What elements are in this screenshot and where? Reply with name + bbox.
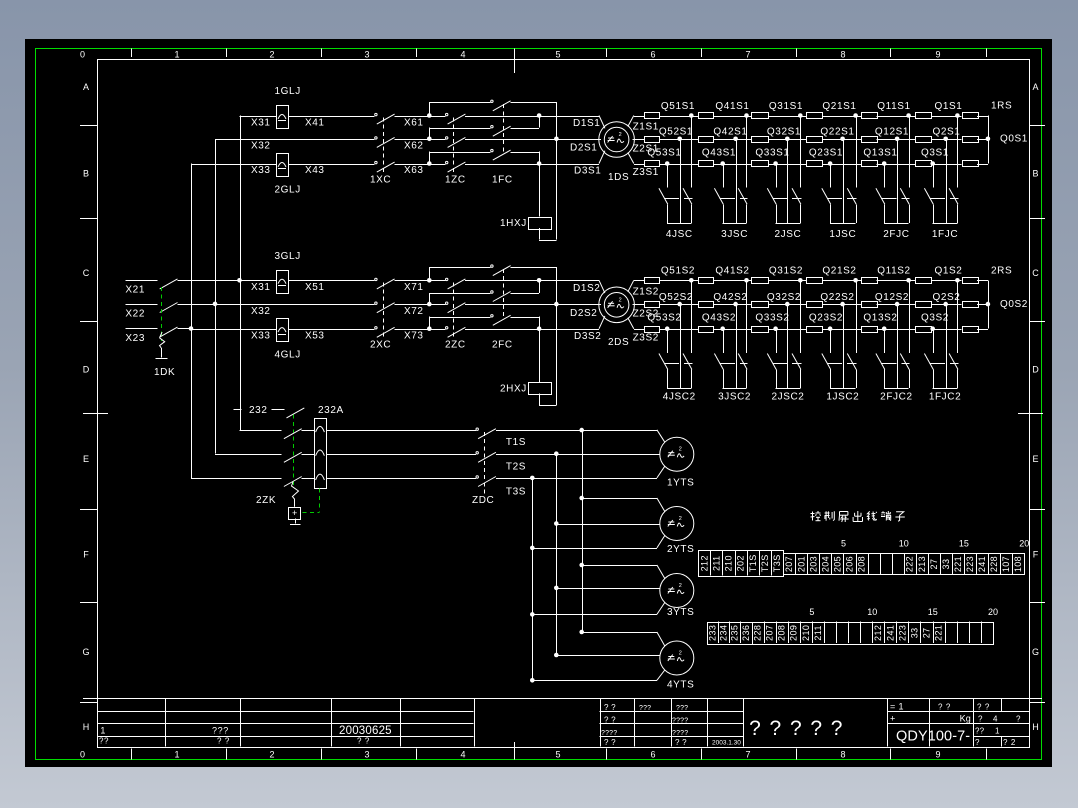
- wire T2S to ZDC: [326, 454, 476, 456]
- terminal strip1 main block: [784, 554, 1025, 575]
- svg-text:Q3S1: Q3S1: [921, 147, 949, 158]
- contact pair 2JSC: [773, 161, 778, 166]
- wire 2YTS top diagonal: [657, 498, 665, 512]
- green link horizontal: [303, 512, 320, 514]
- svg-text:Q33S1: Q33S1: [755, 147, 789, 158]
- svg-text:2DS: 2DS: [608, 337, 629, 348]
- resistor element col3 row1 1: [752, 113, 769, 119]
- wire row1 1 left: [240, 116, 277, 118]
- svg-text:2HXJ: 2HXJ: [500, 383, 527, 394]
- resistor element col4 row1 1: [807, 113, 823, 119]
- svg-text:2FJC: 2FJC: [883, 229, 909, 240]
- svg-text:1ZC: 1ZC: [445, 175, 466, 186]
- wire 3YTS bottom: [532, 614, 657, 616]
- left centre fold mark: [83, 413, 108, 415]
- wire T2S to connector: [302, 454, 314, 456]
- svg-text:X32: X32: [251, 141, 271, 152]
- wire row3 1 to meter: [465, 164, 599, 166]
- svg-text:3YTS: 3YTS: [667, 607, 694, 618]
- svg-text:X31: X31: [251, 282, 271, 293]
- contact 2ZK pole 1: [284, 429, 302, 439]
- svg-text:Q31S1: Q31S1: [769, 101, 803, 112]
- wire grid row1 2 to common: [977, 280, 988, 282]
- bottom ruler tick marks: [132, 749, 987, 760]
- svg-text:202: 202: [736, 555, 746, 571]
- top ruler tick marks: [132, 49, 987, 58]
- svg-text:3: 3: [364, 50, 369, 60]
- wire grid row3 1 seg1: [659, 164, 698, 166]
- resistor element col7 row2 2: [963, 302, 979, 308]
- bus3 2 wire: [429, 317, 490, 319]
- svg-text:236: 236: [741, 625, 751, 641]
- terminal wire X23: [125, 328, 157, 330]
- svg-text:20030625: 20030625: [339, 725, 392, 737]
- wire 3YTS bottom diagonal: [657, 603, 665, 615]
- svg-text:???: ???: [639, 705, 651, 712]
- svg-text:3GLJ: 3GLJ: [275, 251, 301, 262]
- contact pair 4JSC2: [665, 326, 670, 331]
- drawing title placeholder ?????: [749, 717, 842, 740]
- svg-text:1YTS: 1YTS: [667, 478, 694, 489]
- svg-text:233: 233: [707, 625, 717, 641]
- svg-text:Q22S2: Q22S2: [820, 292, 854, 303]
- svg-text:Q1S2: Q1S2: [935, 266, 963, 277]
- svg-text:2: 2: [679, 583, 682, 589]
- resistor element col3 row1 2: [752, 278, 769, 284]
- svg-text:?: ?: [978, 715, 983, 724]
- svg-text:Q0S1: Q0S1: [1000, 134, 1028, 145]
- resistor element col3 row3 2: [752, 327, 769, 333]
- svg-text:B: B: [83, 169, 89, 179]
- bus3 2 riser: [429, 317, 431, 329]
- svg-text:206: 206: [844, 556, 854, 572]
- contact pair 4JSC: [665, 161, 670, 166]
- wire grid row2 1 seg6: [931, 139, 962, 141]
- wire row2 1 to meter: [465, 139, 601, 141]
- resistor element col2 row2 1: [699, 137, 714, 143]
- junction row2 1 tap: [427, 137, 432, 142]
- wire X23 to feeder: [178, 328, 192, 330]
- wire grid row1 2 seg4: [823, 280, 862, 282]
- terminal wire X21: [125, 280, 157, 282]
- svg-text:2FC: 2FC: [492, 340, 513, 351]
- wire row3 tap to 2HXJ: [539, 329, 541, 382]
- wire row3 1 1XC to 1ZC: [395, 164, 446, 166]
- wire grid row2 2 seg4: [823, 304, 862, 306]
- svg-text:? ?: ? ?: [604, 715, 616, 724]
- svg-text:209: 209: [789, 625, 799, 641]
- svg-text:4: 4: [460, 50, 465, 60]
- svg-text:D1S2: D1S2: [573, 283, 600, 294]
- disconnect 1DK linkage line: [161, 287, 163, 341]
- svg-text:221: 221: [934, 625, 944, 641]
- svg-text:? ?: ? ?: [357, 737, 370, 746]
- left ruler tick marks: [80, 126, 97, 703]
- svg-text:27: 27: [922, 627, 932, 638]
- connector pin chevron 3: [316, 474, 325, 480]
- contact 2ZK pole 3: [284, 477, 302, 487]
- wire T3S to ZDC: [326, 478, 476, 480]
- contact group 1FC with linkage line: [503, 104, 505, 154]
- svg-text:2FJC2: 2FJC2: [880, 392, 912, 403]
- svg-text:3JSC: 3JSC: [721, 229, 748, 240]
- svg-text:8: 8: [840, 750, 845, 760]
- junction row2 2 tap: [427, 302, 432, 307]
- contact ZDC pole 2: [476, 452, 478, 454]
- feeder vertical phase2: [215, 139, 217, 454]
- svg-text:Q21S1: Q21S1: [822, 101, 856, 112]
- svg-text:Q21S2: Q21S2: [822, 266, 856, 277]
- svg-text:Q43S1: Q43S1: [702, 147, 736, 158]
- svg-text:4YTS: 4YTS: [667, 680, 694, 691]
- wire grid row3 2 seg5: [877, 329, 916, 331]
- svg-text:Z1S2: Z1S2: [633, 286, 659, 297]
- svg-text:? ?: ? ?: [938, 703, 951, 712]
- svg-text:9: 9: [935, 750, 940, 760]
- wire 2YTS bottom diagonal: [657, 536, 665, 548]
- svg-text:X41: X41: [305, 117, 325, 128]
- junction X21 feeder: [237, 278, 242, 283]
- bus3 1 riser: [429, 152, 431, 164]
- svg-text:2XC: 2XC: [370, 340, 391, 351]
- meter 2DS double circle: [599, 287, 635, 323]
- svg-text:4: 4: [460, 750, 465, 760]
- wire grid row1 1 seg5: [877, 116, 916, 118]
- svg-text:Q53S1: Q53S1: [647, 147, 681, 158]
- resistor element col3 row2 2: [752, 302, 769, 308]
- bus2 2 riser: [429, 293, 431, 304]
- relay 4GLJ coil box: [277, 319, 289, 342]
- svg-text:223: 223: [965, 556, 975, 572]
- terminal wire X22: [125, 304, 157, 306]
- svg-text:X43: X43: [305, 165, 325, 176]
- green link vertical: [319, 489, 321, 512]
- bus1 1 riser: [429, 102, 431, 115]
- common tie wire Q0S2: [988, 280, 990, 328]
- svg-text:D3S2: D3S2: [574, 331, 601, 342]
- resistor element col5 row3 2: [862, 327, 878, 333]
- svg-text:? ?: ? ?: [675, 738, 687, 747]
- transducer 2YTS glyph: [668, 524, 675, 526]
- svg-text:Z1S1: Z1S1: [633, 122, 659, 133]
- svg-text:?: ?: [831, 717, 843, 740]
- wire row1 2 to meter: [465, 280, 599, 282]
- wire 2DS exit1: [628, 280, 634, 292]
- wire row1 1 1XC to 1ZC: [395, 116, 446, 118]
- svg-text:T3S: T3S: [772, 554, 782, 572]
- bus1 1 wire: [429, 102, 490, 104]
- wire 4YTS bottom diagonal: [657, 670, 665, 680]
- svg-text:2JSC2: 2JSC2: [771, 392, 804, 403]
- svg-text:T3S: T3S: [506, 486, 526, 497]
- svg-text:4: 4: [993, 715, 998, 724]
- resistor element col2 row1 2: [699, 278, 714, 284]
- svg-text:5: 5: [841, 539, 846, 549]
- svg-text:Q23S2: Q23S2: [809, 313, 843, 324]
- wire grid row2 1 seg1: [659, 139, 698, 141]
- wire row3 2 left: [191, 329, 276, 331]
- svg-text:Q22S1: Q22S1: [820, 127, 854, 138]
- svg-text:1FJC: 1FJC: [932, 229, 958, 240]
- svg-text:T1S: T1S: [748, 554, 758, 572]
- svg-text:212: 212: [873, 625, 883, 641]
- svg-text:1DK: 1DK: [154, 367, 175, 378]
- svg-text:228: 228: [989, 556, 999, 572]
- svg-text:Z3S1: Z3S1: [633, 167, 659, 178]
- wire X21 to feeder: [178, 280, 241, 282]
- svg-text:A: A: [1032, 82, 1038, 92]
- svg-text:? ?: ? ?: [604, 738, 616, 747]
- wire grid row3 1 to common: [977, 164, 988, 166]
- svg-text:X73: X73: [404, 330, 424, 341]
- wire 1DS exit1: [628, 116, 634, 127]
- svg-text:4JSC: 4JSC: [666, 229, 693, 240]
- junction Q0S2 row2: [986, 302, 991, 307]
- wire T3S from feeder: [191, 478, 282, 480]
- svg-text:1: 1: [174, 50, 179, 60]
- svg-text:??: ??: [975, 727, 985, 736]
- svg-text:Kg: Kg: [960, 714, 971, 724]
- svg-text:20: 20: [988, 607, 998, 617]
- resistor element col1 row1 2: [645, 278, 660, 284]
- svg-text:Q43S2: Q43S2: [702, 313, 736, 324]
- svg-text:?: ?: [749, 717, 761, 740]
- relay 3GLJ coil box: [277, 271, 289, 294]
- svg-text:Q3S2: Q3S2: [921, 313, 949, 324]
- svg-text:27: 27: [929, 559, 939, 570]
- svg-text:?: ?: [790, 717, 802, 740]
- svg-text:? ?: ? ?: [217, 737, 230, 746]
- svg-text:15: 15: [928, 607, 938, 617]
- wire 2DS exit3: [628, 318, 634, 329]
- top centre fold mark: [514, 48, 516, 73]
- relay 2GLJ coil box: [277, 154, 289, 177]
- svg-text:5: 5: [809, 607, 814, 617]
- svg-text:2: 2: [619, 132, 622, 138]
- junction X23 feeder: [189, 326, 194, 331]
- terminal strip1 main block numbers: [784, 556, 1023, 572]
- wire grid row1 2 seg5: [877, 280, 916, 282]
- svg-text:2: 2: [269, 50, 274, 60]
- wire T1S to ZDC: [326, 430, 476, 432]
- terminal strip2 prefix block: [708, 623, 753, 645]
- svg-text:1FJC2: 1FJC2: [929, 392, 961, 403]
- connector pin chevron 1: [316, 426, 325, 432]
- svg-text:X71: X71: [404, 282, 424, 293]
- svg-text:D1S1: D1S1: [573, 118, 600, 129]
- contact pair 1JSC: [828, 161, 833, 166]
- svg-text:1: 1: [100, 726, 106, 736]
- svg-text:Q41S2: Q41S2: [715, 266, 749, 277]
- wire grid row3 2 seg6: [931, 329, 962, 331]
- svg-text:E: E: [1032, 454, 1038, 464]
- transducer 3YTS glyph: [668, 591, 675, 593]
- resistor element col5 row1 1: [862, 113, 878, 119]
- relay 1HXJ coil box: [529, 218, 552, 230]
- junction row3 1 bus3 tee: [537, 161, 542, 166]
- resistor element col6 row2 1: [916, 137, 932, 143]
- resistor element col6 row3 1: [916, 161, 932, 167]
- wire grid row2 1 seg4: [823, 139, 862, 141]
- relay 1GLJ coil box: [277, 106, 289, 129]
- wire 4YTS top diagonal: [657, 632, 665, 646]
- wire 3YTS top: [582, 565, 657, 567]
- resistor element col3 row2 1: [752, 137, 769, 143]
- svg-text:?: ?: [975, 738, 980, 747]
- connector 232A box: [315, 419, 327, 489]
- svg-text:? ?: ? ?: [977, 703, 990, 712]
- resistor element col1 row2 2: [645, 302, 660, 308]
- svg-text:6: 6: [650, 750, 655, 760]
- feeder vertical phase1: [240, 116, 242, 431]
- svg-text:???: ???: [212, 726, 229, 736]
- junction taps 3YTS: [579, 563, 584, 568]
- bus1 1 to right drop: [511, 102, 557, 104]
- svg-text:1RS: 1RS: [991, 101, 1012, 112]
- wire 1YTS bottom: [532, 478, 657, 480]
- svg-text:0: 0: [80, 750, 85, 760]
- resistor element col5 row2 1: [862, 137, 878, 143]
- wire grid row2 2 seg6: [931, 304, 962, 306]
- wire grid row3 1 seg6: [931, 164, 962, 166]
- junction row3 2 bus3 tee: [537, 326, 542, 331]
- svg-text:X33: X33: [251, 165, 271, 176]
- svg-text:208: 208: [857, 556, 867, 572]
- contact group 2FC with linkage line: [503, 269, 505, 319]
- resistor element col6 row1 1: [916, 113, 932, 119]
- svg-text:208: 208: [777, 625, 787, 641]
- wire 2YTS mid: [556, 524, 660, 526]
- svg-text:? 2: ? 2: [1003, 738, 1016, 747]
- svg-text:204: 204: [820, 556, 830, 572]
- contact ZDC pole 1: [476, 428, 478, 430]
- resistor element col1 row2 1: [645, 137, 660, 143]
- resistor element col1 row1 1: [645, 113, 660, 119]
- svg-text:108: 108: [1013, 556, 1023, 572]
- svg-text:D: D: [83, 365, 90, 375]
- wire grid row2 2 seg3: [768, 304, 806, 306]
- svg-text:E: E: [83, 454, 89, 464]
- wire 2YTS bottom: [532, 548, 657, 550]
- contact pair 3JSC: [720, 161, 725, 166]
- svg-text:? ?: ? ?: [604, 703, 616, 712]
- bus2 1 wire: [429, 128, 490, 130]
- terminal strip2 prefix block numbers: [707, 625, 751, 641]
- svg-text:213: 213: [917, 556, 927, 572]
- svg-text:2JSC: 2JSC: [775, 229, 802, 240]
- wire grid row3 2 seg1: [659, 329, 698, 331]
- wire X22 to feeder: [178, 304, 216, 306]
- svg-text:10: 10: [899, 539, 909, 549]
- svg-text:234: 234: [719, 625, 729, 641]
- wire row2 2 to 2XC: [215, 304, 375, 306]
- svg-text:2YTS: 2YTS: [667, 544, 694, 555]
- resistor element col7 row2 1: [963, 137, 979, 143]
- svg-text:228: 228: [753, 625, 763, 641]
- contact pair 2FJC: [882, 161, 887, 166]
- svg-text:Q32S1: Q32S1: [767, 127, 801, 138]
- contact group 2ZC with linkage line: [453, 282, 455, 338]
- contact pair 1FJC2: [930, 326, 935, 331]
- svg-text:223: 223: [897, 625, 907, 641]
- svg-text:201: 201: [796, 556, 806, 572]
- svg-text:A: A: [83, 82, 89, 92]
- resistor element col3 row3 1: [752, 161, 769, 167]
- bus3 1 wire: [429, 152, 490, 154]
- svg-text:T2S: T2S: [506, 462, 526, 473]
- wire 1HXJ to bus1 drop: [539, 228, 541, 240]
- contact 232-232A: [287, 408, 305, 418]
- contact pair 1FJC: [930, 161, 935, 166]
- linkage line 2ZK: [293, 415, 295, 487]
- title block grid: [887, 711, 1029, 713]
- resistor element col2 row2 2: [699, 302, 714, 308]
- svg-text:T2S: T2S: [760, 554, 770, 572]
- wire grid row3 2 seg2: [713, 329, 751, 331]
- wire grid row1 1 seg6: [931, 116, 962, 118]
- wire row3 1 to 1XC: [289, 164, 375, 166]
- svg-text:???: ???: [676, 705, 688, 712]
- svg-text:9: 9: [935, 50, 940, 60]
- svg-text:H: H: [1032, 722, 1039, 732]
- svg-text:33: 33: [909, 627, 919, 638]
- svg-text:6: 6: [650, 50, 655, 60]
- svg-text:20: 20: [1019, 539, 1029, 549]
- contact pair 2FJC2: [882, 326, 887, 331]
- wire grid row3 1 seg4: [823, 164, 862, 166]
- svg-text:X32: X32: [251, 306, 271, 317]
- wire 4YTS mid: [556, 655, 660, 657]
- svg-text:X31: X31: [251, 117, 271, 128]
- svg-text:203: 203: [808, 556, 818, 572]
- resistor element col4 row1 2: [807, 278, 823, 284]
- svg-text:Q12S2: Q12S2: [875, 292, 909, 303]
- svg-text:4JSC2: 4JSC2: [663, 392, 696, 403]
- svg-text:Q13S1: Q13S1: [863, 147, 897, 158]
- contact group 1ZC with linkage line: [453, 118, 455, 174]
- svg-text:Q12S1: Q12S1: [875, 127, 909, 138]
- 2ZK operator zigzag: [292, 482, 299, 507]
- svg-text:232: 232: [249, 405, 268, 416]
- svg-text:= 1: = 1: [890, 702, 904, 712]
- telemetry feeder vertical T2S: [556, 454, 558, 655]
- svg-text:Q52S1: Q52S1: [659, 127, 693, 138]
- wire grid row2 2 seg1: [659, 304, 698, 306]
- svg-text:X33: X33: [251, 330, 271, 341]
- resistor element col6 row3 2: [916, 327, 932, 333]
- transducer 1YTS circle: [660, 437, 694, 471]
- wire row2 1 1XC to 1ZC: [395, 139, 446, 141]
- wire grid row3 1 seg2: [713, 164, 751, 166]
- resistor element col2 row3 2: [699, 327, 714, 333]
- wire grid row2 1 seg5: [877, 139, 916, 141]
- revision table grid: [98, 711, 474, 713]
- wire row1 1 to meter: [465, 116, 599, 118]
- wire grid row1 1 seg3: [768, 116, 806, 118]
- wire 4YTS bottom: [532, 680, 657, 682]
- svg-text:QDY100-7-: QDY100-7-: [896, 729, 970, 745]
- svg-text:Q41S1: Q41S1: [715, 101, 749, 112]
- contact pair 3JSC2: [720, 326, 725, 331]
- junction row1 2 tap: [427, 278, 432, 283]
- wire 1YTS top: [582, 430, 657, 432]
- svg-text:1DS: 1DS: [608, 172, 629, 183]
- bus1 1 drop wire: [556, 102, 558, 240]
- svg-text:Q42S1: Q42S1: [713, 127, 747, 138]
- svg-text:X21: X21: [125, 285, 145, 296]
- resistor element col4 row2 2: [807, 302, 823, 308]
- svg-text:X22: X22: [125, 308, 145, 319]
